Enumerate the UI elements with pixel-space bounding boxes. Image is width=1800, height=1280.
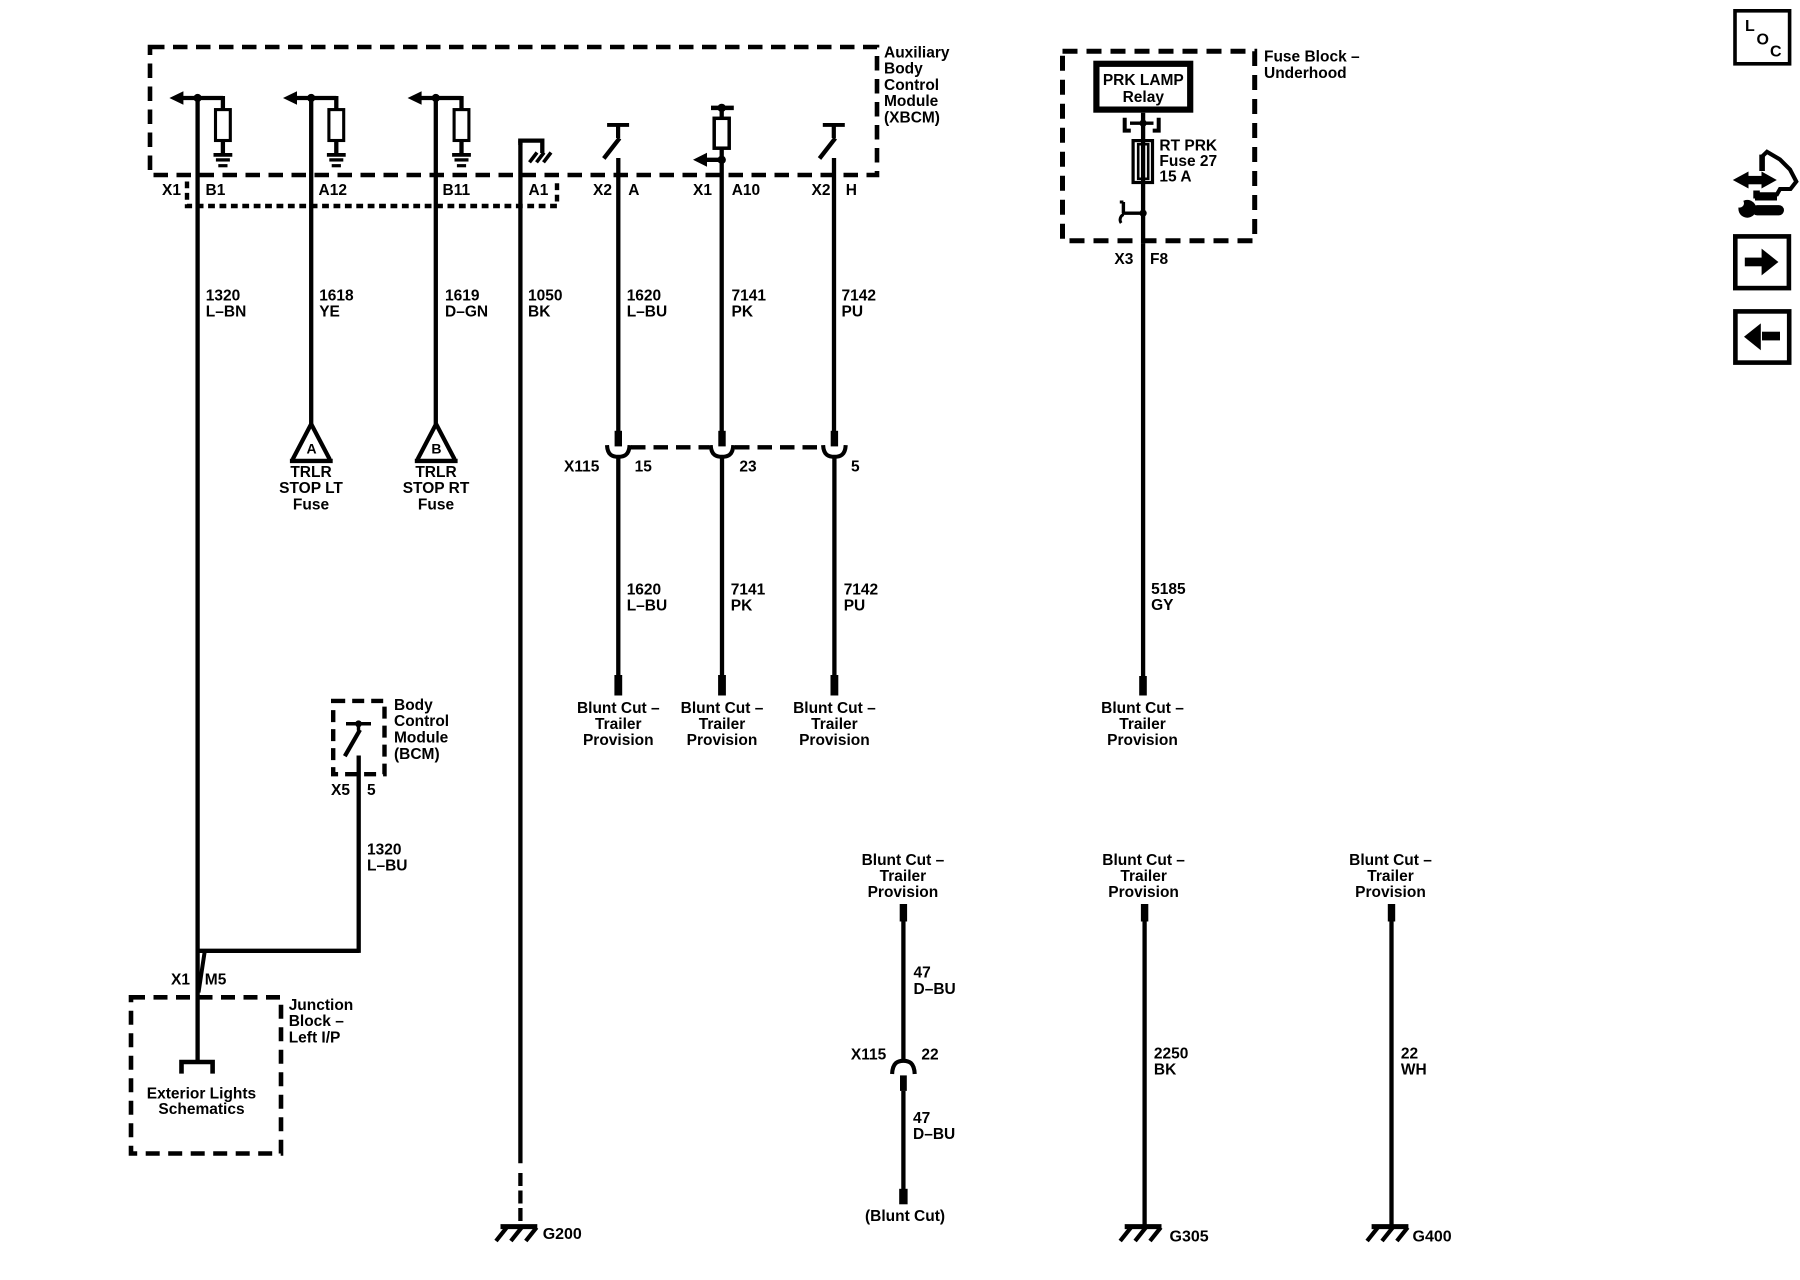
svg-text:BK: BK [528,304,551,321]
wire 1619 D-GN (pin B11 to fuse B) [434,96,438,424]
ground G200 symbol [501,1224,538,1229]
svg-text:Fuse: Fuse [293,496,330,513]
svg-text:Blunt Cut –: Blunt Cut – [577,700,660,717]
blunt cut start (2250 BK) [1141,904,1148,922]
svg-text:Control: Control [884,77,939,94]
junction dot (pin A12) [307,94,315,102]
svg-text:STOP RT: STOP RT [403,480,470,497]
wire 1620 L-BU upper [616,158,620,432]
junction dot (pin B11) [432,94,440,102]
svg-text:1620: 1620 [627,582,661,599]
junction block dashed box [131,997,281,1153]
wire 1320 L-BU from BCM [357,756,361,953]
svg-text:Trailer: Trailer [1119,716,1166,733]
switch contact (XBCM pin X2-H) [823,123,845,127]
svg-text:Provision: Provision [583,732,654,749]
junction dot (pin B1) [194,94,202,102]
internal output arrow (pin A12) [283,91,297,105]
XBCM internal chassis ground bend (pin A1) [518,139,522,146]
svg-text:Provision: Provision [1107,732,1178,749]
ground symbol (XBCM internal, B11 branch) [452,153,471,157]
svg-text:7142: 7142 [842,288,876,305]
relay socket terminals [1125,118,1131,131]
in-line connector X115 pin 15 [615,431,622,447]
svg-text:TRLR: TRLR [290,464,331,481]
wire 2250 BK [1142,920,1146,1227]
schematic reference bracket (junction block) [182,1062,213,1074]
blunt cut end (7142 PU) [831,675,839,696]
svg-text:(XBCM): (XBCM) [884,109,940,126]
svg-text:Blunt Cut –: Blunt Cut – [1349,852,1432,869]
svg-text:Auxiliary: Auxiliary [884,45,950,62]
internal output arrow (pin B1) [169,91,183,105]
svg-text:Trailer: Trailer [811,716,858,733]
svg-text:Fuse: Fuse [418,496,455,513]
svg-text:1620: 1620 [627,288,661,305]
blunt cut end (7141 PK) [718,675,726,696]
svg-text:23: 23 [739,458,757,475]
svg-text:1320: 1320 [206,288,240,305]
wire inside fuse block [1141,113,1145,244]
fuse RT PRK Fuse 27 15A symbol [1133,141,1152,183]
svg-text:47: 47 [913,1110,930,1127]
svg-text:G305: G305 [1170,1229,1209,1246]
svg-text:O: O [1757,32,1769,49]
svg-text:Provision: Provision [1355,884,1426,901]
svg-text:WH: WH [1401,1062,1427,1079]
svg-text:Body: Body [884,61,923,78]
svg-text:47: 47 [914,965,931,982]
svg-text:BK: BK [1154,1062,1177,1079]
svg-text:F8: F8 [1150,251,1168,268]
svg-text:Junction: Junction [289,997,354,1014]
svg-text:M5: M5 [205,971,227,988]
ground G400 symbol [1372,1224,1409,1229]
svg-text:1050: 1050 [528,288,562,305]
svg-text:X5: X5 [331,782,350,799]
svg-text:7142: 7142 [844,582,878,599]
svg-text:X1: X1 [171,971,190,988]
blunt cut end (5185 GY) [1139,676,1147,696]
svg-text:(BCM): (BCM) [394,746,440,763]
wire 22 WH [1389,920,1393,1227]
svg-text:B11: B11 [443,182,471,199]
ground G305 symbol [1125,1224,1162,1229]
svg-text:Trailer: Trailer [880,868,927,885]
svg-text:Module: Module [394,730,449,747]
svg-text:D–BU: D–BU [913,1126,955,1143]
fuse block dashed box [1063,51,1255,241]
wire 1620 L-BU lower [616,457,620,676]
svg-text:D–BU: D–BU [914,981,956,998]
svg-text:A1: A1 [529,182,549,199]
svg-text:X3: X3 [1114,251,1133,268]
svg-text:Fuse Block –: Fuse Block – [1264,49,1360,66]
svg-text:Exterior Lights: Exterior Lights [147,1086,256,1103]
internal output arrow (pin A10) [720,148,724,432]
svg-text:D–GN: D–GN [445,304,488,321]
svg-text:7141: 7141 [732,288,767,305]
svg-text:15 A: 15 A [1159,169,1191,186]
svg-text:H: H [846,182,857,199]
svg-text:Trailer: Trailer [595,716,642,733]
svg-text:Blunt Cut –: Blunt Cut – [793,700,876,717]
svg-text:5185: 5185 [1151,581,1186,598]
wire 5185 GY [1141,243,1145,677]
svg-text:Schematics: Schematics [158,1101,244,1118]
svg-text:2250: 2250 [1154,1046,1188,1063]
svg-text:Provision: Provision [799,732,870,749]
svg-text:G400: G400 [1413,1229,1452,1246]
switch contact (XBCM pin X2-A) [607,123,629,127]
wire 1320 L-BN (circuit from pin B1) [195,96,199,1062]
svg-text:Provision: Provision [868,884,939,901]
wire 7142 PU upper [832,158,836,432]
svg-text:X115: X115 [564,458,600,475]
svg-text:L–BN: L–BN [206,304,246,321]
svg-text:PU: PU [842,304,864,321]
svg-text:Provision: Provision [1108,884,1179,901]
svg-text:15: 15 [635,458,653,475]
svg-text:Underhood: Underhood [1264,65,1347,82]
svg-text:Module: Module [884,93,939,110]
resistor (XBCM internal, B11 branch) [454,110,469,141]
blunt cut end (1620 L-BU) [614,675,622,696]
svg-text:1619: 1619 [445,288,480,305]
wire 1618 YE (pin A12 to fuse A) [309,96,313,424]
wire 7141 PK lower [720,457,724,676]
svg-text:22: 22 [1401,1046,1418,1063]
XBCM module dashed box [150,47,877,175]
wire 47 D-BU upper [901,920,905,1061]
resistor (XBCM internal, B1 branch) [216,110,231,141]
svg-text:A10: A10 [732,182,760,199]
in-line connector X115 pin 22 [892,1061,915,1074]
svg-text:C: C [1770,44,1782,61]
svg-text:Blunt Cut –: Blunt Cut – [1102,852,1185,869]
svg-text:A: A [306,440,316,456]
svg-text:Trailer: Trailer [699,716,746,733]
svg-text:Block –: Block – [289,1013,345,1030]
svg-text:L–BU: L–BU [627,304,667,321]
svg-text:Provision: Provision [687,732,758,749]
svg-text:1320: 1320 [367,841,401,858]
svg-text:Body: Body [394,697,433,714]
svg-text:Relay: Relay [1123,89,1165,106]
internal output arrow (pin B11) [408,91,422,105]
svg-text:22: 22 [921,1046,938,1063]
wire 1050 BK dashed section [518,1173,522,1223]
svg-text:TRLR: TRLR [415,464,456,481]
wire 1050 BK (pin A1 to G200) [518,141,522,1164]
svg-text:Blunt Cut –: Blunt Cut – [862,852,945,869]
blunt cut start (47 D-BU) [900,904,907,922]
in-line connector X115 pin 5 [831,431,838,447]
svg-text:B: B [431,440,441,456]
LOC reference icon box [1735,11,1790,64]
blunt cut end (47 D-BU) [899,1189,907,1205]
svg-text:L: L [1745,18,1755,35]
svg-text:PRK LAMP: PRK LAMP [1103,72,1184,89]
svg-text:PK: PK [731,598,753,615]
svg-text:X1: X1 [693,182,712,199]
in-line terminal below fuse [1122,202,1125,213]
svg-text:X1: X1 [162,182,181,199]
svg-text:L–BU: L–BU [627,598,667,615]
previous page arrow icon [1735,311,1789,362]
svg-text:1618: 1618 [319,288,354,305]
wire from A10 bar to resistor [720,108,724,119]
switch contact (BCM) [346,722,371,726]
svg-text:X2: X2 [593,182,612,199]
svg-text:GY: GY [1151,597,1174,614]
svg-text:Control: Control [394,713,449,730]
svg-text:YE: YE [319,304,340,321]
svg-text:Left I/P: Left I/P [289,1030,341,1047]
svg-text:PK: PK [732,304,754,321]
svg-text:X115: X115 [851,1046,887,1063]
XBCM X1 connector dotted outline [187,182,557,207]
svg-text:(Blunt Cut): (Blunt Cut) [865,1208,945,1225]
resistor (XBCM internal, A10 branch) [714,118,729,148]
relay box PRK LAMP [1096,64,1190,110]
blunt cut start (22 WH) [1388,904,1395,922]
chassis ground hatch (XBCM A1) [530,153,538,163]
X115 connector link dashed line [631,445,709,449]
svg-text:Blunt Cut –: Blunt Cut – [681,700,764,717]
wire 7142 PU lower [832,457,836,676]
ground symbol (XBCM internal, B1 branch) [214,153,233,157]
svg-text:5: 5 [367,782,376,799]
svg-text:PU: PU [844,598,866,615]
next page arrow icon [1735,236,1789,288]
fuse symbol triangle B (TRLR STOP RT Fuse) [418,424,455,460]
svg-text:Trailer: Trailer [1367,868,1414,885]
svg-text:7141: 7141 [731,582,766,599]
service info icon (double arrow, outline, wrench) [1733,172,1749,189]
terminal bar (XBCM pin A10 top) [711,106,734,111]
svg-text:A: A [628,182,639,199]
svg-text:A12: A12 [319,182,347,199]
svg-text:X2: X2 [812,182,831,199]
svg-text:STOP LT: STOP LT [279,480,343,497]
svg-text:5: 5 [851,458,860,475]
fuse symbol triangle A (TRLR STOP LT Fuse) [293,424,330,460]
in-line connector X115 pin 23 [718,431,725,447]
wire 47 D-BU lower [901,1091,905,1190]
resistor (XBCM internal, A12 branch) [329,110,344,141]
svg-text:Trailer: Trailer [1120,868,1167,885]
ground symbol (XBCM internal, A12 branch) [327,153,346,157]
svg-text:L–BU: L–BU [367,857,407,874]
svg-text:G200: G200 [543,1226,582,1243]
BCM dashed box [333,701,384,774]
svg-text:Blunt Cut –: Blunt Cut – [1101,700,1184,717]
svg-text:B1: B1 [206,182,226,199]
